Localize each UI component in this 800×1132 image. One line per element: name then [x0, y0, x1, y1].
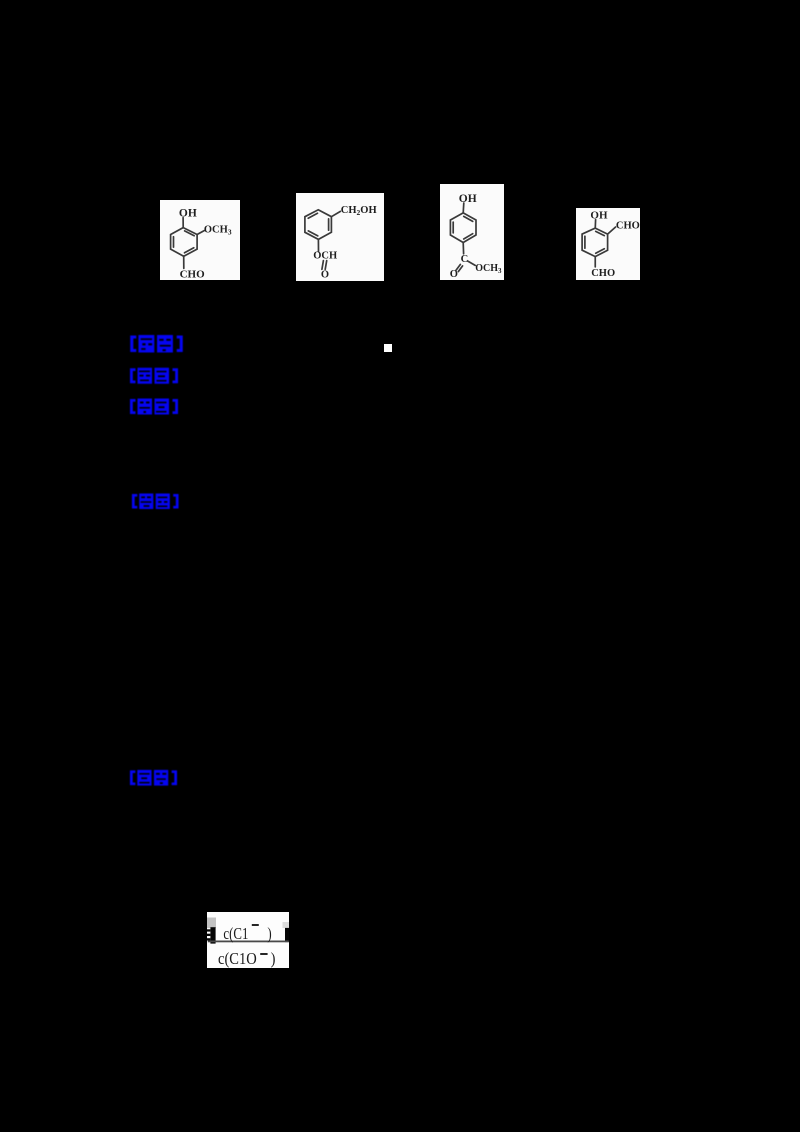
bond ring to C: [462, 243, 464, 254]
blue label 5: [128, 769, 179, 787]
bond ring to OCH3: [197, 231, 204, 235]
svg-text:c(C1: c(C1: [223, 926, 248, 944]
svg-text:OCH3: OCH3: [475, 263, 502, 275]
double bond inner lines ring 4: [584, 236, 586, 248]
structure box 1: vanillin: [160, 200, 240, 280]
svg-text:CHO: CHO: [616, 220, 640, 231]
bond OH to ring: [462, 203, 465, 213]
svg-text:CHO: CHO: [591, 268, 615, 279]
blue label 4: [130, 493, 181, 510]
blue label 1: [128, 335, 185, 353]
gray scan patch top-right: [283, 922, 290, 928]
svg-text:OH: OH: [179, 207, 197, 219]
structure box 3: methyl 4-hydroxybenzoate: [440, 184, 504, 280]
svg-text:CHO: CHO: [180, 268, 206, 280]
bond ring to lower CHO: [594, 257, 596, 267]
svg-text:OH: OH: [459, 193, 477, 205]
benzene ring 2: [305, 210, 332, 240]
numerator c(Cl-): [223, 926, 271, 944]
bond ring to upper CHO: [608, 227, 616, 234]
svg-text:C: C: [461, 254, 469, 265]
svg-text:): ): [267, 926, 271, 944]
bond ring to CHO: [183, 256, 185, 268]
bond OH to ring: [594, 220, 596, 229]
bond C to OCH3: [468, 261, 476, 265]
formula box: c(Cl-)/c(ClO-): [207, 912, 289, 968]
C=O double bond of formate: [322, 261, 324, 270]
structure box 2: 3-(hydroxymethyl)phenyl formate: [296, 193, 384, 281]
bond ring to CH2OH: [331, 211, 340, 216]
denominator c(ClO-): [218, 950, 275, 968]
svg-text:): ): [271, 950, 276, 968]
svg-text:OCH: OCH: [313, 251, 337, 262]
svg-text:c(C1O: c(C1O: [218, 950, 257, 968]
svg-text:O: O: [450, 269, 458, 280]
svg-text:O: O: [321, 269, 329, 280]
double bond inner lines ring 2: [308, 213, 317, 218]
C=O double bond: [456, 264, 460, 270]
answer white square: [384, 344, 392, 352]
fraction bar: [208, 941, 289, 943]
double bond inner lines ring 1: [173, 237, 175, 247]
double bond inner lines ring 3: [452, 222, 454, 233]
benzene ring 3: [450, 213, 476, 243]
blue label 3: [128, 398, 180, 415]
blue label 2: [128, 367, 180, 385]
svg-text:OCH3: OCH3: [204, 225, 232, 237]
black mark left edge: [210, 927, 215, 943]
bond ring to O of formate: [317, 239, 319, 251]
structure box 4: 4-hydroxyisophthalaldehyde: [576, 208, 640, 280]
svg-text:OH: OH: [590, 210, 608, 222]
gray scan patch top-left: [207, 918, 216, 929]
bond OH to ring: [182, 218, 184, 228]
benzene ring 1: [171, 228, 198, 257]
benzene ring 4: [582, 228, 608, 257]
black mark right edge: [285, 928, 289, 942]
